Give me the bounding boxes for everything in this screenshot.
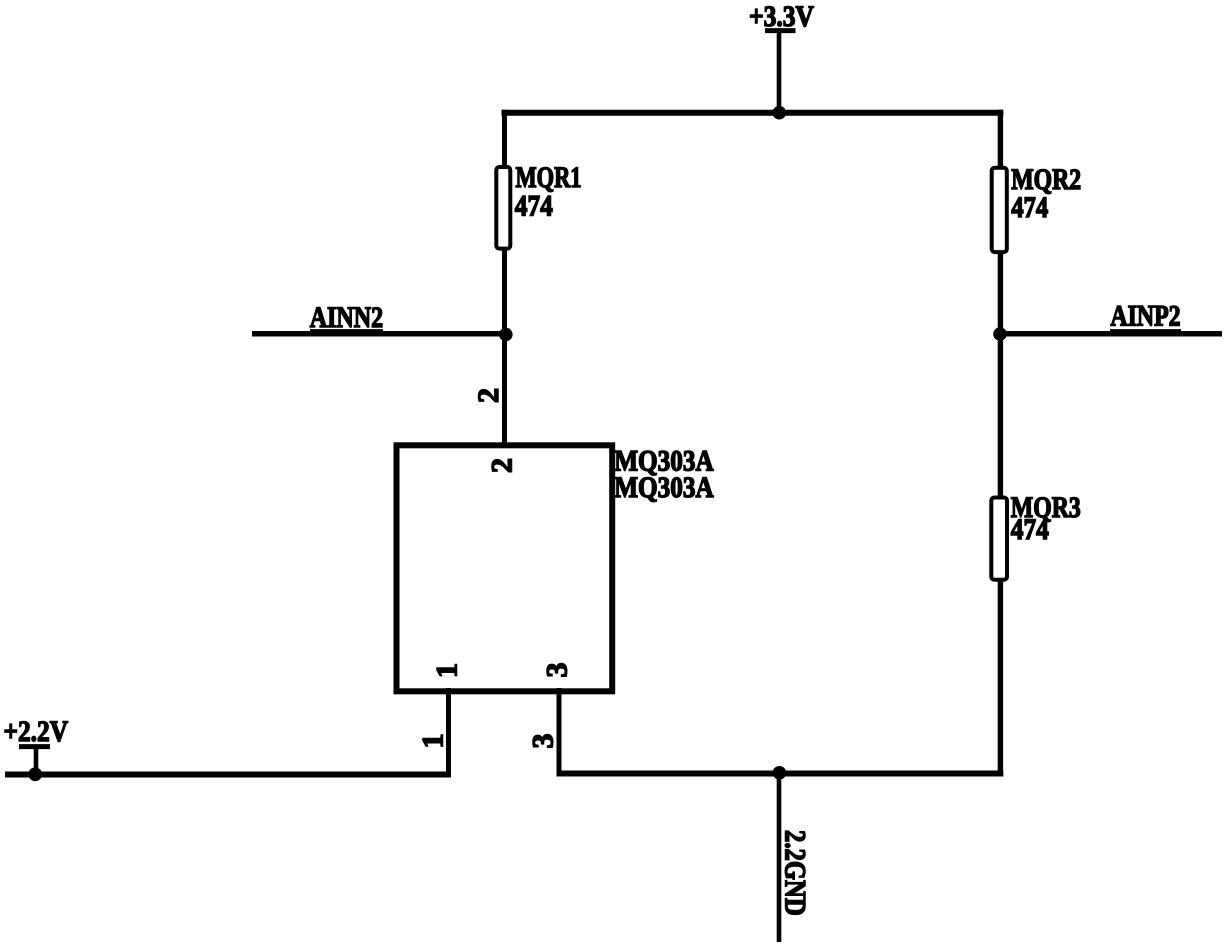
- wire left vertical: [502, 110, 507, 448]
- wire +2.2V rail: [5, 772, 451, 778]
- svg-text:1: 1: [416, 734, 449, 749]
- ic MQ303A box: [397, 445, 714, 692]
- net AINN2: [252, 301, 507, 334]
- svg-text:474: 474: [1011, 191, 1048, 224]
- svg-text:3: 3: [527, 734, 560, 749]
- svg-text:3: 3: [541, 663, 574, 678]
- svg-text:AINP2: AINP2: [1110, 300, 1180, 333]
- junction +2.2V: [28, 767, 42, 781]
- junction AINN2: [499, 328, 513, 342]
- resistor MQR3: [991, 491, 1081, 580]
- wire right vertical: [998, 110, 1003, 776]
- svg-text:474: 474: [515, 190, 553, 223]
- junction AINP2: [993, 327, 1007, 341]
- junction gnd: [773, 766, 787, 780]
- svg-text:+2.2V: +2.2V: [4, 715, 69, 748]
- power +2.2V: [4, 715, 69, 776]
- net 2.2GND: [779, 771, 812, 942]
- junction top: [773, 106, 787, 120]
- wire top rail: [502, 110, 1004, 116]
- svg-text:474: 474: [1011, 513, 1049, 546]
- svg-text:+3.3V: +3.3V: [749, 0, 814, 33]
- wire pin 1: [446, 688, 451, 777]
- net AINP2: [998, 300, 1222, 334]
- resistor MQR1: [496, 161, 581, 249]
- power +3.3V: [749, 0, 814, 114]
- svg-text:2: 2: [486, 458, 519, 473]
- svg-text:MQ303A: MQ303A: [614, 471, 714, 504]
- svg-text:2: 2: [472, 388, 505, 403]
- svg-text:1: 1: [431, 663, 464, 678]
- wire gnd rail: [557, 771, 1004, 777]
- resistor MQR2: [992, 163, 1081, 252]
- svg-text:AINN2: AINN2: [310, 301, 383, 334]
- wire pin 3: [557, 688, 562, 776]
- svg-text:2.2GND: 2.2GND: [779, 830, 812, 916]
